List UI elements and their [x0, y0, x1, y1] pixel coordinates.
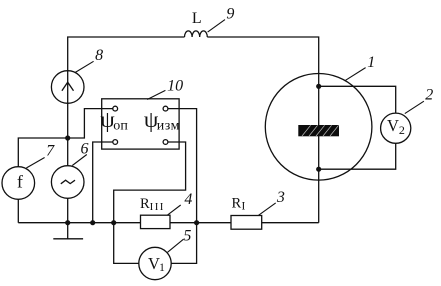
wire V2 top branch — [319, 86, 396, 113]
leader 5 — [168, 239, 184, 252]
voltmeter V1 — [139, 247, 171, 279]
leader 6 — [72, 155, 87, 166]
core (hatched rect) inside sensor — [298, 125, 339, 136]
wire node A to terminal TL — [68, 109, 113, 138]
voltmeter V2 — [381, 113, 411, 143]
leader 7 — [26, 158, 44, 169]
svg-text:6: 6 — [81, 141, 89, 158]
sensor circle 1 — [265, 74, 372, 181]
wire f-meter branch — [18, 138, 67, 223]
svg-text:f: f — [17, 172, 23, 192]
svg-text:3: 3 — [276, 189, 285, 206]
svg-text:2: 2 — [425, 87, 433, 104]
svg-text:5: 5 — [183, 227, 191, 244]
node BL-bus dot — [90, 220, 95, 225]
svg-text:10: 10 — [167, 77, 183, 94]
node A dot — [65, 135, 70, 140]
leader 3 — [259, 203, 276, 215]
terminal TR — [163, 106, 168, 111]
svg-text:9: 9 — [226, 6, 234, 23]
svg-text:1: 1 — [367, 54, 375, 71]
leader 4 — [167, 205, 180, 215]
resistor RI (R3) — [231, 216, 262, 230]
block U10 (transducer box) — [102, 99, 179, 149]
svg-text:7: 7 — [46, 143, 55, 160]
wire bottom bus — [18, 222, 318, 224]
node V1-right dot — [194, 220, 199, 225]
terminal BR — [163, 140, 168, 145]
node V1-left dot — [111, 220, 116, 225]
leader 10 — [147, 90, 165, 99]
wire terminal BR to V1 left — [114, 142, 186, 263]
source G8 circle with arrow — [51, 71, 84, 104]
leader 9 — [208, 20, 225, 32]
leader 2 — [405, 101, 424, 113]
node ground dot — [65, 220, 70, 225]
leader 8 — [75, 61, 93, 72]
leader lines — [26, 20, 424, 253]
node sensor-bottom dot — [316, 167, 321, 172]
wire V2 bottom branch — [319, 143, 396, 169]
inductor L9 coil — [185, 31, 208, 37]
wire terminal TR down right bus — [168, 109, 197, 264]
ground — [67, 223, 69, 239]
svg-text:4: 4 — [184, 191, 192, 208]
node sensor-top dot — [316, 84, 321, 89]
resistor RIII (R4) — [141, 215, 171, 228]
svg-text:L: L — [192, 10, 202, 27]
terminal TL — [113, 106, 118, 111]
leader 1 — [345, 68, 366, 81]
terminal BL — [113, 140, 118, 145]
wire terminal BL to bottom bus — [93, 142, 113, 223]
AC source 6 — [51, 166, 84, 199]
wire top left segment — [68, 37, 185, 223]
frequency meter f7 — [2, 167, 35, 200]
svg-text:8: 8 — [95, 47, 103, 64]
wire top right segment — [207, 37, 318, 223]
